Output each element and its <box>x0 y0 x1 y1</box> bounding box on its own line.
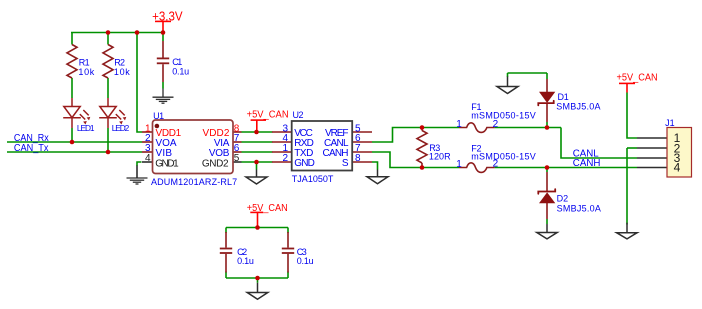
svg-text:CAN_Tx: CAN_Tx <box>14 143 49 154</box>
svg-text:+3.3V: +3.3V <box>152 9 183 23</box>
svg-text:C1: C1 <box>172 57 182 67</box>
svg-text:4: 4 <box>145 153 151 164</box>
svg-text:R2: R2 <box>114 57 125 67</box>
svg-text:10k: 10k <box>114 67 130 77</box>
svg-text:GND1: GND1 <box>155 158 179 169</box>
svg-text:8: 8 <box>355 153 361 164</box>
svg-text:D2: D2 <box>557 194 569 204</box>
svg-text:4: 4 <box>674 161 681 175</box>
svg-text:SMBJ5.0A: SMBJ5.0A <box>556 101 600 111</box>
svg-text:+5V_CAN: +5V_CAN <box>247 109 289 120</box>
svg-text:5: 5 <box>234 153 240 164</box>
svg-text:mSMD050-15V: mSMD050-15V <box>471 152 536 162</box>
svg-text:GND: GND <box>294 158 315 169</box>
svg-text:0.1u: 0.1u <box>237 256 254 266</box>
svg-text:R1: R1 <box>79 57 90 67</box>
svg-text:+5V_CAN: +5V_CAN <box>247 203 288 214</box>
svg-text:U2: U2 <box>293 110 304 120</box>
svg-text:GND2: GND2 <box>202 158 229 169</box>
svg-text:SMBJ5.0A: SMBJ5.0A <box>557 203 601 213</box>
svg-text:1: 1 <box>456 119 462 130</box>
svg-text:J1: J1 <box>665 118 675 128</box>
svg-text:ADUM1201ARZ-RL7: ADUM1201ARZ-RL7 <box>151 177 237 187</box>
svg-text:2: 2 <box>493 119 499 130</box>
svg-text:1: 1 <box>456 159 462 170</box>
svg-text:TJA1050T: TJA1050T <box>292 174 334 184</box>
svg-text:LED1: LED1 <box>77 123 95 133</box>
svg-text:0.1u: 0.1u <box>172 67 189 77</box>
svg-text:S: S <box>342 158 349 169</box>
svg-text:+5V_CAN: +5V_CAN <box>617 73 658 84</box>
svg-text:CANH: CANH <box>573 158 601 169</box>
svg-text:LED2: LED2 <box>112 123 130 133</box>
svg-text:U1: U1 <box>153 111 164 121</box>
svg-text:10k: 10k <box>78 67 94 77</box>
svg-text:mSMD050-15V: mSMD050-15V <box>471 110 536 120</box>
svg-text:120R: 120R <box>429 152 451 162</box>
svg-text:2: 2 <box>282 153 288 164</box>
svg-text:0.1u: 0.1u <box>297 256 314 266</box>
